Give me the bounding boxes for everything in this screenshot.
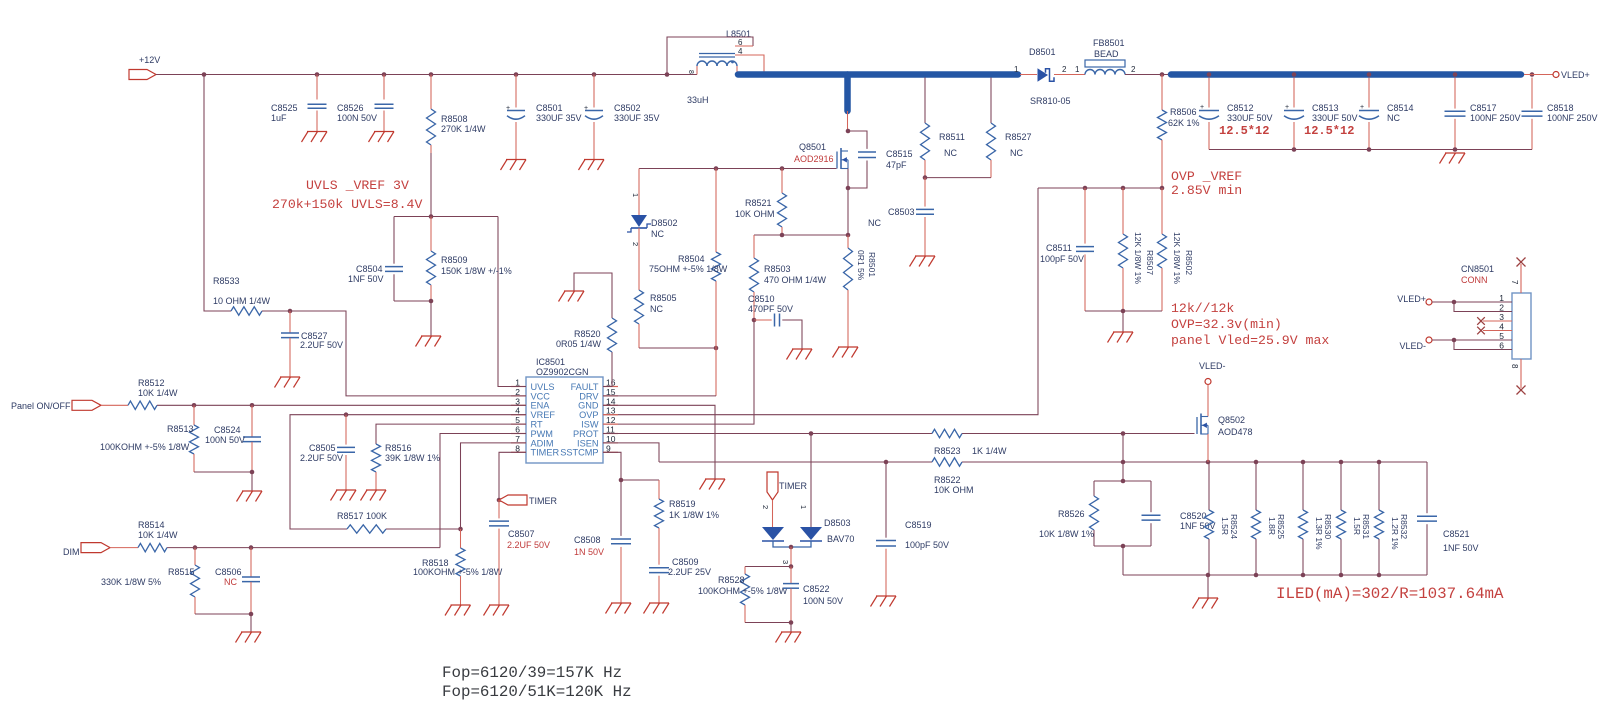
ground [501,160,527,171]
capacitor C8503 [868,178,934,256]
svg-text:VLED-: VLED- [1199,361,1226,371]
capacitor C8505 [300,415,355,490]
svg-text:Q8501: Q8501 [799,142,826,152]
svg-text:2.2UF 25V: 2.2UF 25V [668,567,711,577]
svg-text:OZ9902CGN: OZ9902CGN [536,367,589,377]
resistor R8517 [337,511,461,533]
wire VCC from R8533 [204,75,231,312]
wire output caps ground rail [1209,147,1532,152]
resistor R8504 gate drive [649,169,728,396]
svg-text:CONN: CONN [1461,275,1488,285]
svg-text:1: 1 [1075,65,1080,74]
capacitor C8502 [584,75,660,160]
svg-text:UVLS _VREF 3V: UVLS _VREF 3V [306,178,409,193]
svg-text:1N 50V: 1N 50V [574,547,604,557]
svg-text:47pF: 47pF [886,160,907,170]
ground [700,479,726,490]
wire R8533 to VCC pin2 [262,309,526,396]
svg-text:100NF 250V: 100NF 250V [1470,113,1521,123]
wire Q8502 source [1207,434,1209,462]
wire D8502 branch bottom [639,346,718,351]
svg-text:10K 1/4W: 10K 1/4W [138,388,178,398]
ground [644,603,670,614]
node output bus junctions [1207,72,1535,77]
svg-text:1NF 50V: 1NF 50V [348,274,384,284]
svg-text:R8533: R8533 [213,276,240,286]
svg-text:1.2R 1%: 1.2R 1% [1390,517,1400,550]
svg-text:R8507: R8507 [1145,250,1155,275]
svg-text:1.5R: 1.5R [1220,517,1230,535]
capacitor C8508 [574,480,631,603]
port TIMER 2 [767,472,807,500]
svg-text:C8525: C8525 [271,103,298,113]
ground [579,160,605,171]
op-amp controller IC8501 OZ9902CGN [511,357,618,463]
svg-text:8: 8 [1510,364,1519,369]
svg-text:BEAD: BEAD [1094,49,1119,59]
wire SSTCMP pin9 [603,452,659,482]
svg-text:+: + [1200,104,1204,111]
svg-text:8: 8 [687,70,694,74]
svg-text:12.5*12: 12.5*12 [1219,124,1269,138]
wire ISEN sense line [659,460,1427,465]
capacitor C8513 [1284,78,1358,150]
svg-text:R8509: R8509 [441,255,468,265]
svg-text:C8502: C8502 [614,103,641,113]
resistor R8527 [987,78,1032,178]
svg-text:7: 7 [1510,280,1519,285]
svg-text:39K 1/8W 1%: 39K 1/8W 1% [385,453,440,463]
resistor R8515 [101,548,200,614]
svg-text:R8503: R8503 [764,264,791,274]
resistor R8522 [932,458,974,495]
inductor L8501 [687,29,751,105]
svg-text:NC: NC [650,304,663,314]
svg-text:R8531: R8531 [1361,514,1371,539]
wire thick bus switch node [738,75,1018,112]
ground [787,349,813,360]
svg-text:1: 1 [799,505,808,509]
port +12V [129,55,160,80]
svg-text:R8504: R8504 [678,254,705,264]
transistor Q8501 [794,142,848,169]
pin 6 stub of L8501 [735,38,753,47]
resistor R8525 [1252,462,1287,575]
ground [1193,598,1219,609]
node R8506 tap [1160,72,1165,77]
svg-text:2.2UF 50V: 2.2UF 50V [507,540,550,550]
wire ISEN pin10 [603,443,659,462]
svg-text:R8513: R8513 [167,424,194,434]
node D8503 out [789,564,794,569]
svg-text:100KOHM +-5% 1/8W: 100KOHM +-5% 1/8W [413,567,503,577]
capacitor C8504 [348,217,403,302]
svg-text:TIMER: TIMER [779,481,807,491]
ground [871,596,897,607]
svg-text:2.2UF 50V: 2.2UF 50V [300,453,343,463]
svg-text:R8527: R8527 [1005,132,1032,142]
svg-text:100NF 250V: 100NF 250V [1547,113,1598,123]
svg-text:R8511: R8511 [939,132,965,142]
svg-text:C8503: C8503 [888,207,915,217]
resistor R8532 [1375,462,1410,575]
svg-text:1: 1 [1014,65,1019,74]
svg-text:2: 2 [1131,65,1136,74]
wire DRV pin15 [603,395,716,397]
svg-text:C8520: C8520 [1180,511,1207,521]
svg-text:1NF 50V: 1NF 50V [1443,543,1479,553]
svg-text:270k+150k UVLS=8.4V: 270k+150k UVLS=8.4V [272,197,422,212]
ground [910,256,936,267]
svg-text:NC: NC [1387,113,1400,123]
text OVP note [1171,169,1242,198]
svg-text:C8501: C8501 [536,103,563,113]
svg-text:10K OHM: 10K OHM [735,209,775,219]
svg-text:R8524: R8524 [1229,514,1239,539]
svg-text:OVP=32.3v(min): OVP=32.3v(min) [1171,317,1282,332]
svg-text:Q8502: Q8502 [1218,415,1245,425]
wire source sense link [754,233,848,238]
svg-text:0R05 1/4W: 0R05 1/4W [556,339,602,349]
ground [1108,332,1134,343]
svg-text:C8522: C8522 [803,584,830,594]
svg-text:100KOHM +-5% 1/8W: 100KOHM +-5% 1/8W [100,442,190,452]
svg-text:R8516: R8516 [385,443,412,453]
svg-text:R8508: R8508 [441,114,468,124]
resistor R8531 [1337,462,1372,575]
svg-text:R8502: R8502 [1184,250,1194,275]
resistor R8507 [1119,188,1156,311]
wire PROT pin11 [603,431,1195,436]
svg-text:C8519: C8519 [905,520,932,530]
capacitor C8511 [1040,188,1094,311]
svg-text:1K 1/4W: 1K 1/4W [972,446,1007,456]
svg-text:C8505: C8505 [309,443,336,453]
svg-text:BAV70: BAV70 [827,534,854,544]
resistor R8526 [1039,481,1099,546]
capacitor C8515 [848,131,913,188]
svg-text:R8512: R8512 [138,378,165,388]
svg-text:C8507: C8507 [508,529,535,539]
wire OVP to pin13 [603,188,1038,415]
capacitor C8525 [271,75,327,132]
svg-text:C8504: C8504 [356,264,383,274]
ground [331,490,357,501]
svg-text:C8513: C8513 [1312,103,1339,113]
svg-text:10 OHM 1/4W: 10 OHM 1/4W [213,296,271,306]
wire RT pin5 [376,424,526,444]
svg-text:4: 4 [738,47,743,56]
wire thick bus VLED+ [1171,71,1521,78]
wire R8515 C8506 bottom [195,612,253,632]
wire source node [846,169,851,238]
resistor R8514 [138,520,178,552]
svg-text:R8517 100K: R8517 100K [337,511,387,521]
ground [484,605,510,616]
capacitor C8514 [1359,78,1414,150]
capacitor C8501 [506,75,582,160]
svg-text:+: + [1285,104,1289,111]
svg-text:100KOHM +-5% 1/8W: 100KOHM +-5% 1/8W [698,586,788,596]
svg-text:330UF 50V: 330UF 50V [1312,113,1358,123]
wire cn pin5 pin6 [1432,338,1512,350]
port Panel ON/OFF [11,400,101,411]
resistor R8511 [921,78,965,178]
svg-text:330UF 35V: 330UF 35V [536,113,582,123]
svg-text:10K 1/4W: 10K 1/4W [138,530,178,540]
wire FAULT pin16 [603,352,612,387]
svg-text:2: 2 [631,242,640,246]
wire R8526 box [1094,479,1151,575]
ground [606,603,632,614]
pin 8 label of L8501 [687,70,694,74]
port VLED- cn [1399,337,1432,351]
diode D8502 [627,169,678,291]
svg-text:Fop=6120/51K=120K Hz: Fop=6120/51K=120K Hz [442,683,632,701]
wire UVLS divider node [394,214,498,219]
resistor R8524 [1205,462,1240,575]
svg-text:100N 50V: 100N 50V [803,596,843,606]
wire sense bottom rail [1123,573,1427,598]
svg-text:1.5R: 1.5R [1352,517,1362,535]
svg-text:C8510: C8510 [748,294,775,304]
wire R8513 C8524 bottom [194,470,254,491]
svg-text:R8505: R8505 [650,293,677,303]
svg-text:C8521: C8521 [1443,529,1470,539]
svg-text:NC: NC [944,148,957,158]
svg-text:C8509: C8509 [672,557,699,567]
resistor R8509 [427,217,512,302]
svg-text:100N 50V: 100N 50V [205,435,245,445]
svg-text:CN8501: CN8501 [1461,264,1494,274]
port VLED- [1199,361,1226,385]
transistor Q8502 [1197,385,1253,438]
svg-text:R8523: R8523 [934,446,961,456]
wire OVP divider bottom [1085,309,1162,332]
svg-text:C8517: C8517 [1470,103,1497,113]
svg-text:100pF 50V: 100pF 50V [1040,254,1084,264]
svg-text:R8530: R8530 [1323,514,1333,539]
port TIMER [499,495,557,506]
diode D8503 BAV70 [761,434,854,567]
wire cn pin1 pin2 [1432,300,1512,312]
svg-text:R8519: R8519 [669,499,696,509]
svg-text:TIMER: TIMER [531,448,560,458]
svg-text:470PF 50V: 470PF 50V [748,304,793,314]
resistor R8502 [1158,188,1195,311]
connector CN8501 [1461,258,1531,395]
ground [559,291,585,302]
node +12V junctions [202,72,670,77]
svg-text:R8521: R8521 [745,198,772,208]
wire UVLS pin1 [498,217,526,387]
svg-text:12K 1/8W 1%: 12K 1/8W 1% [1172,232,1182,284]
capacitor C8518 [1522,78,1598,150]
svg-text:C8506: C8506 [215,567,242,577]
ground [275,377,301,388]
svg-text:330K 1/8W 5%: 330K 1/8W 5% [101,577,161,587]
svg-text:R8501: R8501 [867,252,877,277]
pin 4 of L8501 [735,47,764,75]
ground [237,491,263,502]
capacitor C8509 [649,557,711,603]
ground [369,132,395,143]
wire Q8502 gate link [1122,434,1124,482]
svg-text:R8522: R8522 [934,475,961,485]
capacitor C8506 [215,548,260,614]
wire FB8501 to output bus [1125,74,1170,76]
resistor R8506 [1158,75,1200,189]
resistor R8516 [372,443,441,490]
wire PWM pin6 [440,434,526,548]
svg-text:100N 50V: 100N 50V [337,113,377,123]
svg-text:FB8501: FB8501 [1093,38,1125,48]
capacitor C8517 [1445,78,1521,150]
svg-text:R8514: R8514 [138,520,165,530]
ground [361,490,387,501]
svg-text:D8502: D8502 [651,218,678,228]
wire L8501 pin6 loop [667,37,753,75]
svg-text:330UF 35V: 330UF 35V [614,113,660,123]
resistor R8512 [128,378,178,410]
port VLED+ cn [1397,294,1432,305]
ground [236,632,262,643]
svg-text:C8524: C8524 [214,425,241,435]
svg-text:R8528: R8528 [718,575,745,585]
resistor R8520 [556,273,617,352]
text Fop note [442,664,632,701]
svg-text:AOD2916: AOD2916 [794,154,834,164]
wire R8511 R8527 join [923,175,991,180]
svg-text:270K 1/4W: 270K 1/4W [441,124,486,134]
ground [416,336,442,347]
ground [833,347,859,358]
ground [1440,153,1466,164]
wire +12V rail [156,74,697,76]
svg-text:330UF 50V: 330UF 50V [1227,113,1273,123]
svg-text:D8501: D8501 [1029,47,1056,57]
svg-text:panel Vled=25.9V max: panel Vled=25.9V max [1171,333,1329,348]
wire OVP node [1038,186,1164,191]
resistor R8519 [655,480,720,565]
wire R8528 loop bottom [745,620,793,632]
capacitor C8512 [1199,78,1273,150]
svg-text:+: + [506,105,510,112]
svg-text:ILED(mA)=302/R=1037.64mA: ILED(mA)=302/R=1037.64mA [1276,585,1504,603]
capacitor C8510 [748,294,802,349]
resistor R8521 [735,169,787,236]
svg-text:33uH: 33uH [687,95,709,105]
svg-text:+: + [1360,104,1364,111]
port DIM [63,543,110,557]
wire R8528 loop top [745,566,791,568]
capacitor C8520 [1142,481,1216,546]
resistor R8530 [1299,462,1334,575]
resistor R8528 [698,567,788,623]
resistor R8523 [932,429,1007,456]
text OVP calc [1171,301,1329,348]
svg-text:1: 1 [631,193,640,197]
diode D8501 [1014,47,1085,106]
svg-text:4: 4 [1499,322,1504,332]
svg-text:C8515: C8515 [886,149,913,159]
node R8503 C8510 [752,318,757,323]
svg-text:12.5*12: 12.5*12 [1304,124,1354,138]
svg-text:NC: NC [224,577,237,587]
svg-text:12k//12k: 12k//12k [1171,301,1234,316]
svg-text:2.2UF 50V: 2.2UF 50V [300,340,343,350]
svg-text:IC8501: IC8501 [536,357,565,367]
capacitor C8522 [783,567,843,623]
wire ENA net [101,403,526,408]
svg-text:6: 6 [738,38,743,47]
svg-text:2: 2 [761,505,770,509]
resistor R8501 [844,235,878,347]
svg-text:TIMER: TIMER [529,496,557,506]
svg-text:75OHM +-5% 1/8W: 75OHM +-5% 1/8W [649,264,728,274]
capacitor C8526 [337,75,394,132]
ferrite bead FB8501 [1085,38,1136,75]
ground [302,132,328,143]
svg-text:R8515: R8515 [168,567,195,577]
svg-text:100pF 50V: 100pF 50V [905,540,949,550]
svg-text:0R1 5%: 0R1 5% [856,250,866,281]
capacitor C8521 [1417,462,1479,575]
svg-text:R8526: R8526 [1058,509,1085,519]
svg-text:1K 1/8W 1%: 1K 1/8W 1% [669,510,719,520]
capacitor C8524 [205,405,261,472]
svg-text:R8532: R8532 [1399,514,1409,539]
svg-text:10K 1/8W 1%: 10K 1/8W 1% [1039,529,1094,539]
wire ADIM pin7 [458,443,526,531]
svg-text:SSTCMP: SSTCMP [560,448,598,458]
svg-text:1.3R 1%: 1.3R 1% [1314,517,1324,550]
svg-text:R8520: R8520 [574,329,601,339]
svg-text:NC: NC [1010,148,1023,158]
resistor R8518 [413,529,503,605]
wire TIMER pin8 [497,452,526,502]
resistor R8508 [427,75,487,217]
svg-text:DIM: DIM [63,547,80,557]
svg-text:VLED-: VLED- [1399,341,1426,351]
wire VREF pin4 [290,412,526,529]
svg-text:Panel ON/OFF: Panel ON/OFF [11,401,71,411]
svg-text:62K 1%: 62K 1% [1168,118,1200,128]
resistor R8503 [750,235,827,320]
resistor R8533 [213,276,271,315]
capacitor C8507 [489,500,550,605]
svg-text:3: 3 [781,560,790,564]
wire GND pin14 [603,405,715,479]
wire divider ground node [394,299,433,336]
capacitor C8527 [281,311,343,377]
svg-text:Fop=6120/39=157K Hz: Fop=6120/39=157K Hz [442,664,622,682]
svg-text:12K 1/8W 1%: 12K 1/8W 1% [1133,232,1143,284]
svg-text:150K 1/8W +/-1%: 150K 1/8W +/-1% [441,266,512,276]
port VLED+ [1524,70,1590,80]
resistor R8513 [100,405,199,472]
wire DIM net [110,545,440,550]
svg-text:+12V: +12V [139,55,160,65]
svg-text:NC: NC [651,229,664,239]
capacitor C8519 [876,462,949,596]
svg-text:R8525: R8525 [1276,514,1286,539]
wire ISW to R8503 [603,320,754,424]
svg-text:1uF: 1uF [271,113,287,123]
svg-text:C8526: C8526 [337,103,364,113]
wire drain link [846,111,851,133]
svg-text:D8503: D8503 [824,518,851,528]
